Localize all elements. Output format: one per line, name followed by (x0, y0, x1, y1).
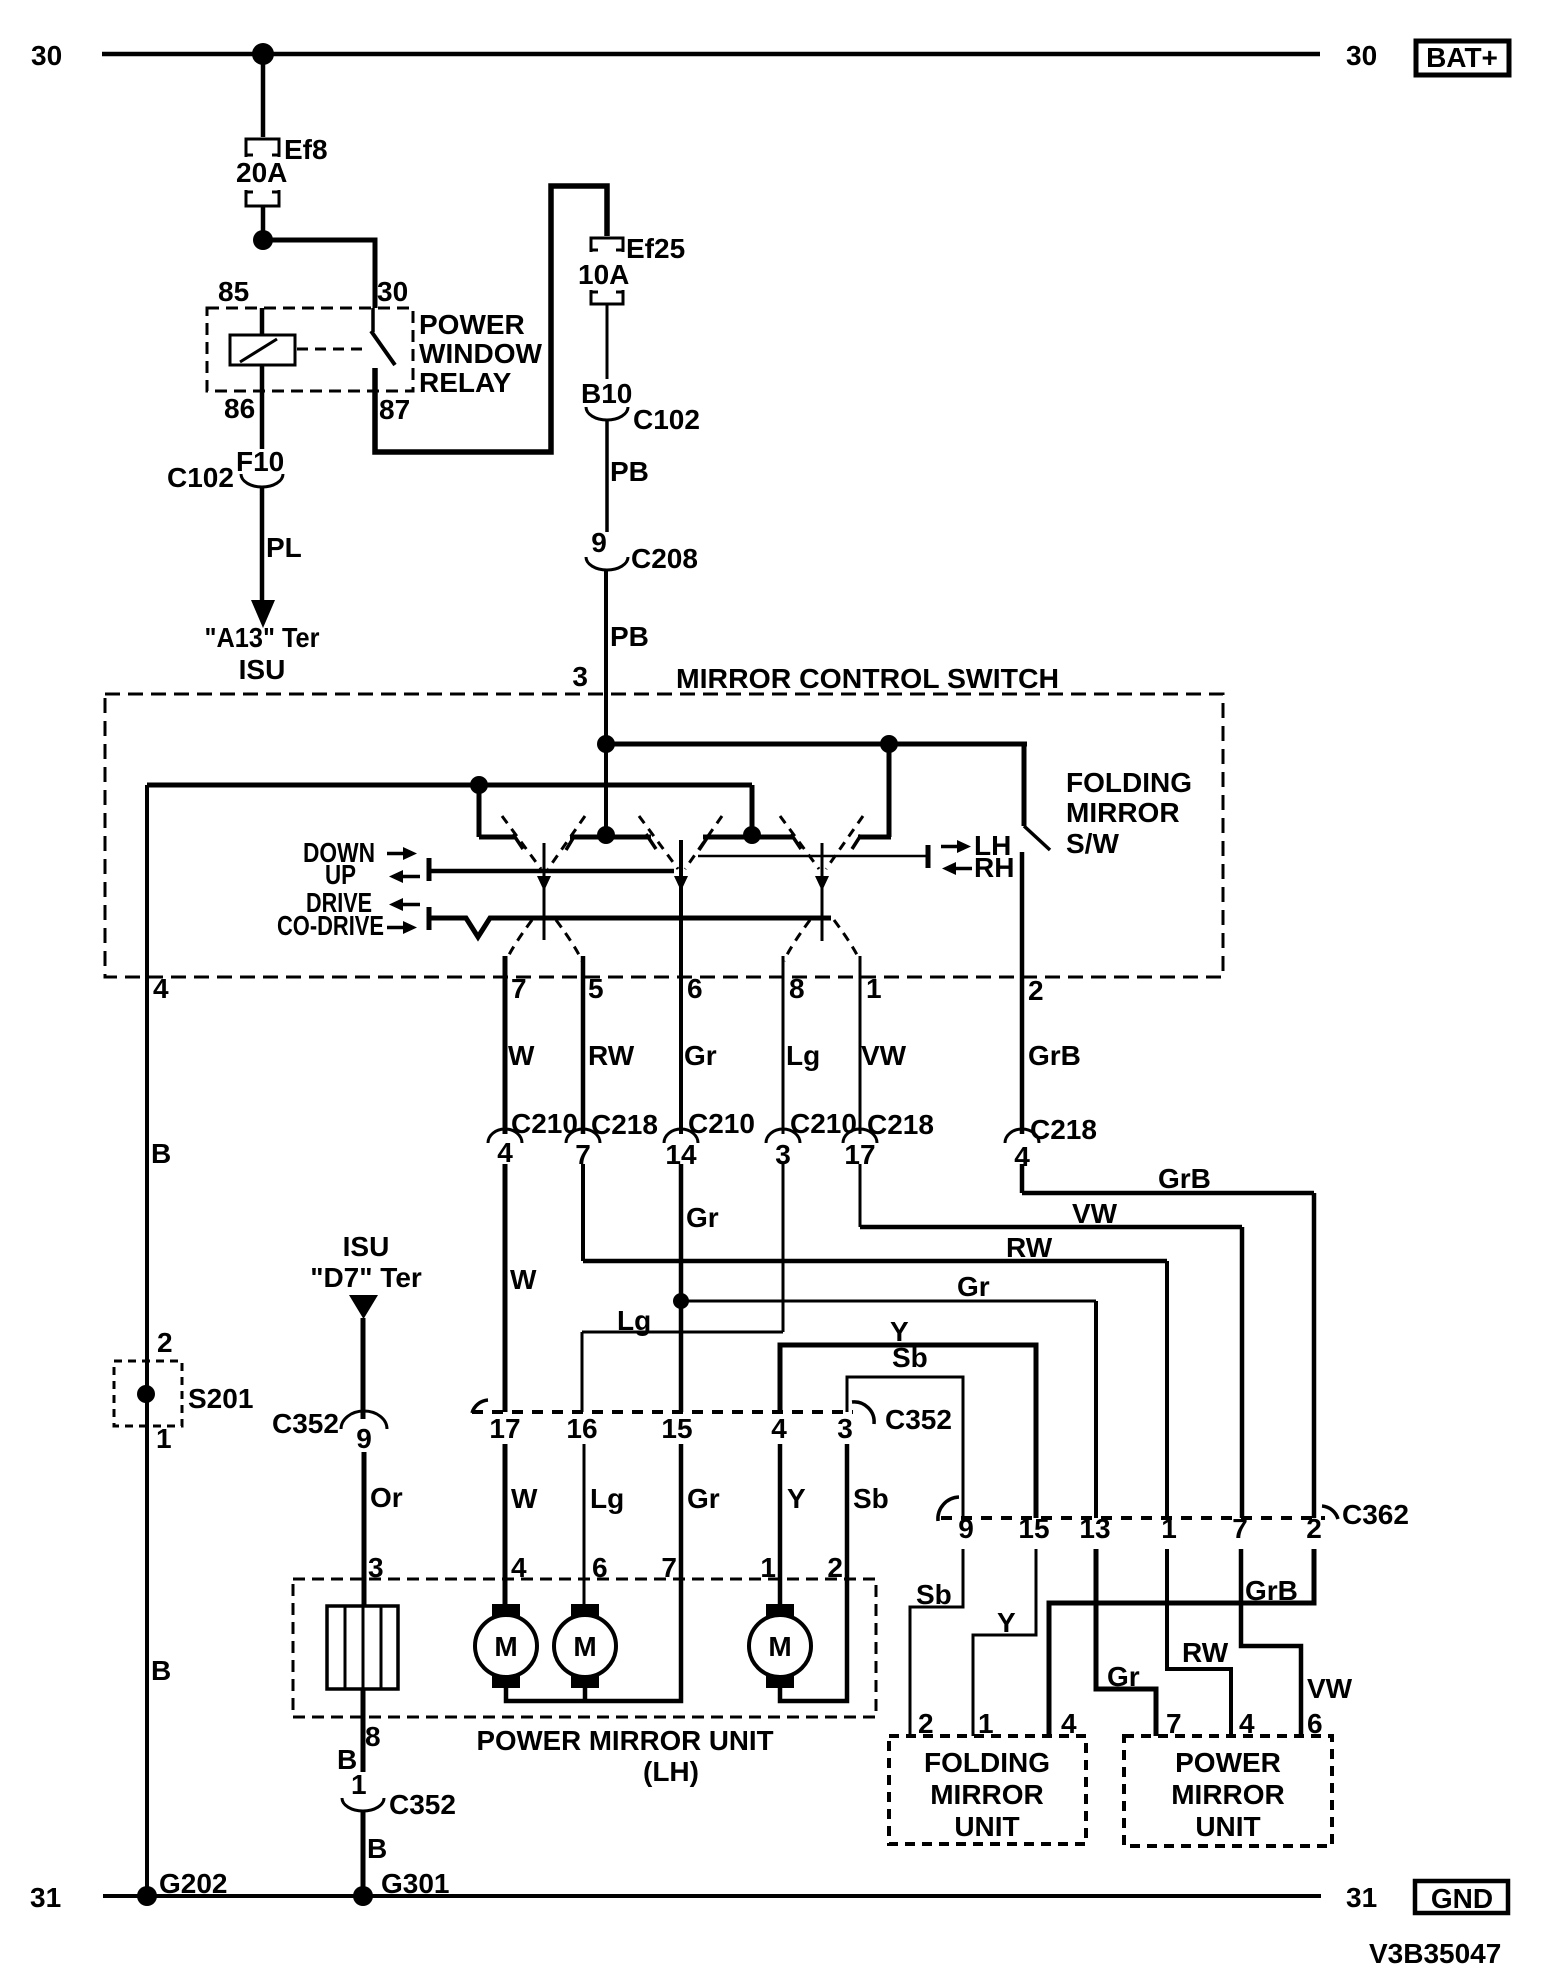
svg-text:"A13" Ter: "A13" Ter (205, 622, 320, 653)
svg-text:C362: C362 (1342, 1499, 1409, 1530)
svg-text:CO-DRIVE: CO-DRIVE (277, 910, 384, 941)
svg-text:31: 31 (1346, 1882, 1377, 1913)
svg-text:2: 2 (1028, 975, 1044, 1006)
svg-text:Gr: Gr (686, 1202, 719, 1233)
svg-text:3: 3 (837, 1413, 853, 1444)
svg-text:S/W: S/W (1066, 828, 1119, 859)
svg-text:6: 6 (687, 973, 703, 1004)
svg-text:8: 8 (365, 1721, 381, 1752)
svg-text:ISU: ISU (239, 654, 286, 685)
svg-text:B: B (151, 1655, 171, 1686)
svg-text:MIRROR CONTROL SWITCH: MIRROR CONTROL SWITCH (676, 663, 1059, 694)
svg-text:MIRROR: MIRROR (1171, 1779, 1285, 1810)
svg-text:POWER: POWER (1175, 1747, 1281, 1778)
svg-text:W: W (510, 1264, 537, 1295)
svg-text:POWER: POWER (419, 309, 525, 340)
svg-text:2: 2 (918, 1708, 934, 1739)
svg-text:9: 9 (958, 1513, 974, 1544)
svg-text:Ef25: Ef25 (626, 233, 685, 264)
svg-text:Gr: Gr (684, 1040, 717, 1071)
svg-text:GrB: GrB (1245, 1575, 1298, 1606)
svg-text:C218: C218 (1030, 1114, 1097, 1145)
svg-text:7: 7 (1232, 1513, 1248, 1544)
svg-text:(LH): (LH) (643, 1756, 699, 1787)
svg-text:10A: 10A (578, 259, 629, 290)
svg-text:6: 6 (1307, 1708, 1323, 1739)
svg-text:30: 30 (31, 40, 62, 71)
svg-text:C210: C210 (688, 1108, 755, 1139)
svg-text:Sb: Sb (916, 1579, 952, 1610)
svg-text:4: 4 (1239, 1708, 1255, 1739)
svg-text:W: W (508, 1040, 535, 1071)
svg-text:C352: C352 (389, 1789, 456, 1820)
svg-text:4: 4 (1061, 1708, 1077, 1739)
svg-text:C218: C218 (591, 1109, 658, 1140)
svg-text:15: 15 (661, 1413, 692, 1444)
svg-text:1: 1 (351, 1769, 367, 1800)
svg-text:5: 5 (588, 973, 604, 1004)
svg-text:4: 4 (497, 1137, 513, 1168)
svg-text:1: 1 (156, 1423, 172, 1454)
svg-text:UP: UP (325, 859, 356, 890)
svg-text:VW: VW (1307, 1673, 1353, 1704)
svg-text:85: 85 (218, 276, 249, 307)
svg-text:86: 86 (224, 393, 255, 424)
svg-text:15: 15 (1018, 1513, 1049, 1544)
svg-text:ISU: ISU (343, 1231, 390, 1262)
svg-text:C218: C218 (867, 1109, 934, 1140)
svg-text:G202: G202 (159, 1868, 228, 1899)
svg-text:M: M (573, 1631, 596, 1662)
svg-text:Gr: Gr (1107, 1661, 1140, 1692)
svg-text:FOLDING: FOLDING (924, 1747, 1050, 1778)
svg-text:GND: GND (1431, 1883, 1493, 1914)
svg-text:"D7" Ter: "D7" Ter (310, 1262, 422, 1293)
svg-text:M: M (768, 1631, 791, 1662)
svg-text:C102: C102 (167, 462, 234, 493)
svg-text:Ef8: Ef8 (284, 134, 328, 165)
svg-text:C208: C208 (631, 543, 698, 574)
svg-text:Sb: Sb (853, 1483, 889, 1514)
svg-text:VW: VW (1072, 1198, 1118, 1229)
svg-text:RH: RH (974, 852, 1014, 883)
svg-text:RELAY: RELAY (419, 367, 512, 398)
svg-text:Sb: Sb (892, 1342, 928, 1373)
svg-text:BAT+: BAT+ (1426, 42, 1498, 73)
svg-text:RW: RW (588, 1040, 635, 1071)
svg-text:Lg: Lg (786, 1040, 820, 1071)
svg-text:4: 4 (771, 1413, 787, 1444)
svg-text:MIRROR: MIRROR (1066, 797, 1180, 828)
svg-text:PL: PL (266, 532, 302, 563)
svg-text:PB: PB (610, 621, 649, 652)
svg-text:17: 17 (489, 1413, 520, 1444)
svg-text:B: B (367, 1833, 387, 1864)
svg-text:87: 87 (379, 394, 410, 425)
svg-text:Y: Y (997, 1607, 1016, 1638)
svg-text:GrB: GrB (1158, 1163, 1211, 1194)
svg-text:WINDOW: WINDOW (419, 338, 543, 369)
svg-text:1: 1 (866, 973, 882, 1004)
svg-text:9: 9 (591, 527, 607, 558)
svg-text:7: 7 (511, 973, 527, 1004)
svg-text:RW: RW (1182, 1637, 1229, 1668)
svg-text:B: B (151, 1138, 171, 1169)
svg-text:FOLDING: FOLDING (1066, 767, 1192, 798)
svg-text:Gr: Gr (957, 1271, 990, 1302)
svg-text:Gr: Gr (687, 1483, 720, 1514)
svg-text:C102: C102 (633, 404, 700, 435)
svg-text:W: W (511, 1483, 538, 1514)
svg-text:PB: PB (610, 456, 649, 487)
svg-text:VW: VW (861, 1040, 907, 1071)
svg-text:Or: Or (370, 1482, 403, 1513)
svg-text:30: 30 (377, 276, 408, 307)
svg-text:UNIT: UNIT (954, 1811, 1019, 1842)
svg-text:MIRROR: MIRROR (930, 1779, 1044, 1810)
svg-text:13: 13 (1079, 1513, 1110, 1544)
svg-text:UNIT: UNIT (1195, 1811, 1260, 1842)
svg-text:30: 30 (1346, 40, 1377, 71)
svg-text:20A: 20A (236, 157, 287, 188)
svg-text:3: 3 (572, 661, 588, 692)
svg-text:8: 8 (789, 973, 805, 1004)
svg-text:7: 7 (1166, 1708, 1182, 1739)
svg-text:31: 31 (30, 1882, 61, 1913)
svg-text:B10: B10 (581, 378, 632, 409)
svg-text:GrB: GrB (1028, 1040, 1081, 1071)
svg-text:V3B35047: V3B35047 (1369, 1938, 1501, 1969)
svg-text:RW: RW (1006, 1232, 1053, 1263)
svg-text:1: 1 (1161, 1513, 1177, 1544)
svg-text:16: 16 (566, 1413, 597, 1444)
svg-text:Lg: Lg (617, 1305, 651, 1336)
svg-text:2: 2 (1306, 1513, 1322, 1544)
svg-text:S201: S201 (188, 1383, 253, 1414)
svg-text:M: M (494, 1631, 517, 1662)
svg-text:F10: F10 (236, 446, 284, 477)
svg-text:4: 4 (153, 973, 169, 1004)
svg-text:C352: C352 (885, 1404, 952, 1435)
svg-text:POWER MIRROR UNIT: POWER MIRROR UNIT (477, 1725, 774, 1756)
svg-text:2: 2 (157, 1327, 173, 1358)
svg-text:C352: C352 (272, 1408, 339, 1439)
svg-text:G301: G301 (381, 1868, 450, 1899)
svg-text:Lg: Lg (590, 1483, 624, 1514)
svg-text:1: 1 (978, 1708, 994, 1739)
svg-text:Y: Y (787, 1483, 806, 1514)
svg-text:9: 9 (356, 1423, 372, 1454)
